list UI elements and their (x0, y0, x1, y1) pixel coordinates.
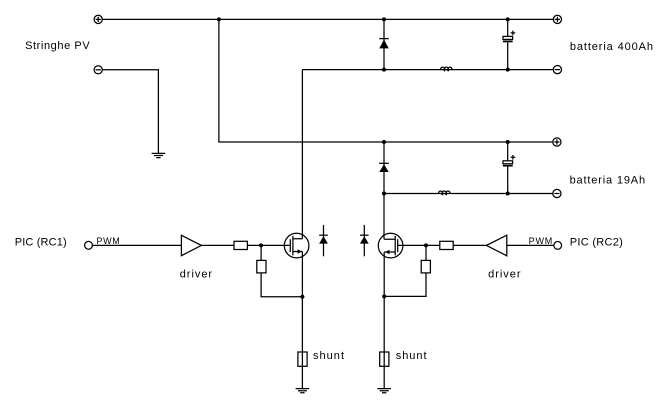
wire driver1 to R1 (201, 244, 234, 246)
wire battery2 bottom rail (384, 193, 553, 195)
terminal PV+ (94, 15, 102, 23)
wire PV- to ground (102, 70, 158, 154)
svg-text:shunt: shunt (396, 350, 427, 362)
node gate2 junction (424, 243, 428, 247)
resistor R3 (gate series) (440, 241, 453, 249)
wire R1 to gate (247, 244, 289, 246)
wire top rail (102, 18, 553, 20)
node top-left junction (217, 17, 221, 21)
terminal PWM2 (554, 242, 562, 250)
node diode D1 top (382, 17, 386, 21)
wire Q2 source down (383, 252, 385, 389)
svg-text:driver: driver (180, 268, 213, 280)
node diode D2 top (382, 140, 386, 144)
inductor L2 (438, 191, 450, 195)
svg-text:shunt: shunt (313, 350, 344, 362)
svg-text:batteria 400Ah: batteria 400Ah (570, 41, 653, 53)
wire Q2 drain up (through D2 junctions) (383, 194, 385, 240)
driver U1 (buffer) (181, 235, 201, 255)
capacitor C2 (503, 142, 515, 194)
svg-text:PWM: PWM (97, 236, 120, 246)
wire R3 to driver2 (453, 244, 486, 246)
node source1 junction (300, 295, 304, 299)
node cap C1 top (506, 17, 510, 21)
terminal battery 400Ah - (553, 66, 561, 74)
node source2 junction (382, 294, 386, 298)
terminal PWM1 (85, 241, 93, 249)
mosfet Q1 (284, 233, 309, 258)
wire rail2 drop (x=218.9 down to second rail) (219, 19, 553, 142)
node D2 bottom (382, 192, 386, 196)
wire PWM1 to driver1 (92, 244, 181, 246)
body diode BD1 (319, 225, 328, 256)
node cap C2 bottom (506, 192, 510, 196)
driver U2 (buffer, mirrored) (486, 235, 506, 256)
svg-text:PIC (RC1): PIC (RC1) (15, 237, 67, 249)
wire R2 to source rail (261, 273, 302, 297)
body diode BD2 (360, 225, 369, 256)
resistor R4 (gate-source) (421, 260, 430, 273)
diode D2 (379, 142, 389, 194)
shunt resistor right (380, 352, 389, 366)
node gate1 junction (259, 243, 263, 247)
ground PV (152, 153, 166, 157)
terminal PV- (94, 66, 102, 74)
wire junction to R4 (425, 245, 427, 260)
capacitor C1 (503, 19, 515, 69)
diode D1 (379, 19, 389, 69)
node cap C1 bottom (506, 68, 510, 72)
svg-text:driver: driver (488, 268, 521, 280)
svg-text:Stringhe PV: Stringhe PV (25, 40, 90, 52)
wire Q1 source down (301, 252, 303, 389)
terminal battery 19Ah + (553, 138, 561, 146)
svg-text:PWM: PWM (529, 236, 553, 246)
svg-text:batteria 19Ah: batteria 19Ah (570, 175, 646, 187)
ground left (296, 389, 310, 393)
shunt resistor left (298, 352, 307, 366)
mosfet Q2 (378, 233, 403, 258)
wire driver2 to PWM2 (507, 244, 554, 246)
node D1 bottom (382, 68, 386, 72)
resistor R1 (gate series) (234, 241, 247, 249)
wire R4 to source rail (384, 273, 426, 297)
svg-text:PIC (RC2): PIC (RC2) (570, 237, 623, 249)
wire Q1 drain up to rail (301, 70, 303, 239)
ground right (377, 389, 391, 393)
terminal battery 19Ah - (553, 189, 561, 197)
node cap C2 top (506, 140, 510, 144)
terminal battery 400Ah + (553, 15, 561, 23)
wire battery1 bottom rail (302, 69, 553, 71)
wire junction to R2 (260, 245, 262, 260)
resistor R2 (gate-source) (257, 260, 266, 273)
inductor L1 (440, 67, 452, 71)
wire gate2 to R3 (398, 244, 440, 246)
